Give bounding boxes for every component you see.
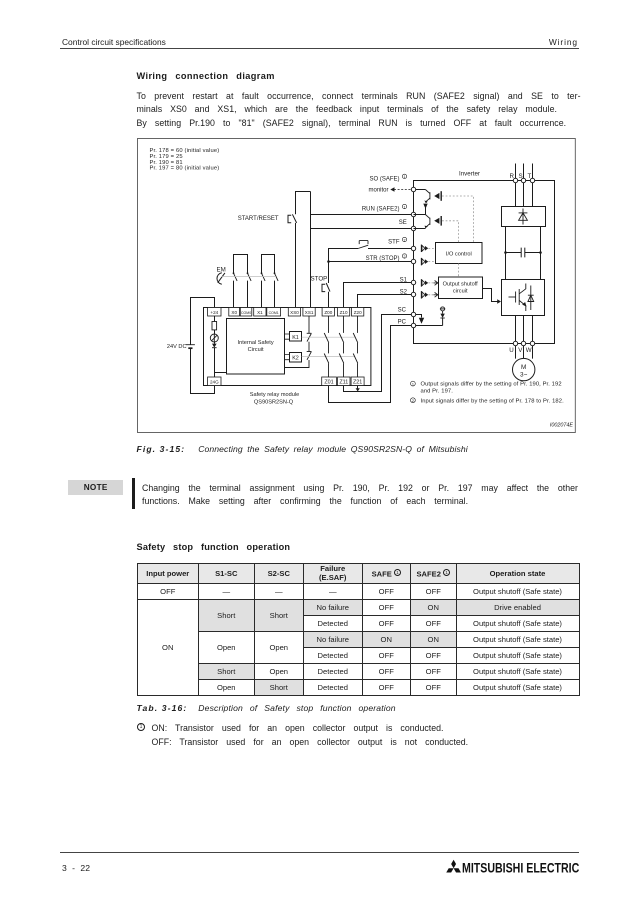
rectifier block — [502, 207, 546, 227]
svg-text:Z00: Z00 — [324, 310, 332, 315]
contact X0 — [233, 272, 238, 281]
junction DC bus right — [539, 251, 542, 254]
motor M — [513, 358, 535, 380]
terminal U — [513, 341, 517, 345]
wire U output — [515, 316, 517, 359]
figure frame — [138, 139, 576, 433]
optocoupler SE phototransistor — [414, 215, 430, 229]
terminal S — [521, 178, 525, 182]
FIGURE (schematic SVG placeholder) — [137, 138, 576, 439]
section title — [137, 71, 275, 81]
wire V output — [523, 316, 525, 359]
footnote mark 1 on SO — [402, 174, 406, 179]
safety relay module outline — [204, 308, 371, 386]
svg-text:SE: SE — [399, 220, 407, 226]
terminal S1 — [411, 280, 415, 284]
dashed STF to I/O control — [428, 248, 435, 250]
contact X1 — [261, 272, 266, 281]
relay contact actuator lines — [302, 337, 355, 356]
output shutoff circuit block — [439, 277, 483, 299]
optocoupler SO LED — [434, 191, 441, 201]
junction DC bus left — [504, 251, 507, 254]
EM mushroom button — [217, 273, 225, 285]
svg-text:Internal Safety: Internal Safety — [238, 340, 274, 346]
wire XS1 riser — [310, 192, 312, 308]
svg-text:Z11: Z11 — [339, 380, 348, 386]
svg-text:PC: PC — [398, 319, 407, 325]
svg-text:X0: X0 — [231, 310, 237, 315]
module terminal labels top — [210, 310, 362, 315]
svg-text:MITSUBISHI ELECTRIC: MITSUBISHI ELECTRIC — [462, 860, 579, 876]
svg-text:SO (SAFE): SO (SAFE) — [369, 176, 399, 182]
wire RUN(SAFE2) — [311, 214, 412, 216]
relay coil K1 — [284, 332, 301, 342]
terminal RUN — [411, 212, 415, 216]
I/O control block — [436, 243, 483, 264]
wire X1-COM1 loop — [262, 255, 275, 308]
svg-text:W: W — [526, 347, 532, 354]
svg-text:STF: STF — [388, 239, 400, 245]
svg-text:Pr. 197 = 80 (initial value): Pr. 197 = 80 (initial value) — [150, 166, 220, 172]
wire STF to terminal — [368, 248, 411, 250]
wire battery loop — [191, 298, 215, 394]
NOTE block — [68, 480, 123, 495]
wire SC return — [344, 315, 412, 392]
svg-text:Output signals differ by the s: Output signals differ by the setting of … — [421, 382, 562, 388]
IGBT symbol — [509, 284, 534, 312]
svg-text:3~: 3~ — [520, 372, 528, 379]
wire DC bus left — [505, 227, 507, 280]
internal safety circuit block — [227, 319, 285, 375]
terminal PC — [411, 323, 415, 327]
wire PC return — [329, 326, 412, 403]
svg-text:XS0: XS0 — [290, 310, 299, 315]
terminal STR — [411, 259, 415, 263]
wire SE — [311, 228, 412, 230]
svg-text:Inverter: Inverter — [459, 171, 480, 178]
svg-text:1: 1 — [404, 205, 406, 209]
figure footnote 2 — [411, 398, 565, 404]
optocoupler SE LED — [434, 216, 441, 226]
optocoupler SO phototransistor — [416, 190, 430, 215]
LED indicator — [210, 330, 218, 342]
junction STR tap — [327, 260, 330, 263]
svg-text:RUN (SAFE2): RUN (SAFE2) — [362, 206, 400, 212]
svg-text:XS1: XS1 — [305, 310, 314, 315]
relay coil K2 — [284, 353, 301, 363]
wire XS0 riser — [296, 192, 311, 308]
wire S supply stub — [523, 164, 525, 207]
svg-text:Output shutoff: Output shutoff — [443, 282, 478, 288]
monitor dashed arrow — [390, 187, 411, 192]
dashed SE LED to I/O control — [442, 221, 459, 243]
internal diode to PC — [440, 314, 444, 326]
wire T supply stub — [532, 164, 534, 207]
svg-text:Input signals differ by the se: Input signals differ by the setting of P… — [421, 398, 565, 404]
wire Z21 drop — [357, 386, 359, 389]
svg-text:M: M — [521, 364, 526, 371]
svg-text:Circuit: Circuit — [248, 347, 264, 353]
footnote mark 2 on STR — [402, 254, 406, 259]
svg-text:STOP: STOP — [311, 275, 328, 282]
relay contacts Z10 chain — [339, 316, 344, 377]
module terminal boxes top — [208, 308, 364, 317]
terminal R — [513, 178, 517, 182]
inverter enclosure — [414, 181, 555, 344]
contact COM0 — [247, 272, 252, 281]
parameter note text — [150, 148, 220, 172]
footnote mark 2 on STF — [402, 237, 406, 242]
inverter IGBT block — [502, 280, 545, 316]
svg-text:I002074E: I002074E — [550, 423, 573, 429]
switch STF — [358, 241, 368, 249]
footnote mark 1 on RUN — [402, 204, 406, 209]
svg-text:V: V — [518, 347, 523, 354]
diode on +24 rail — [212, 342, 227, 377]
input LED STR — [421, 258, 428, 265]
svg-text:24V DC: 24V DC — [167, 344, 187, 350]
terminal W — [530, 341, 534, 345]
terminal name labels — [362, 176, 408, 325]
svg-text:K1: K1 — [292, 335, 299, 341]
svg-text:COM0: COM0 — [241, 311, 251, 315]
svg-text:1: 1 — [412, 383, 414, 387]
wire PC to diode branch — [416, 325, 443, 327]
terminal SO — [411, 187, 415, 191]
input LED S2 — [421, 291, 437, 298]
paragraph — [137, 90, 582, 130]
svg-text:K2: K2 — [292, 356, 299, 362]
input LED S1 — [421, 279, 437, 286]
resistor on +24 rail — [212, 316, 217, 330]
terminal STF — [411, 246, 415, 250]
svg-text:Z20: Z20 — [354, 310, 362, 315]
svg-text:2: 2 — [404, 255, 406, 259]
rectifier diode symbol — [519, 209, 528, 225]
wire Z10 riser to S1 — [344, 283, 412, 308]
wire Z20 riser to S2 — [358, 295, 412, 308]
wire R supply stub — [515, 164, 517, 207]
module terminal labels bottom — [210, 380, 362, 386]
svg-text:2: 2 — [412, 399, 414, 403]
switch STOP — [322, 283, 330, 292]
module caption — [250, 392, 299, 405]
figure caption — [137, 444, 468, 454]
wire shutoff to IGBT with arrow — [483, 289, 502, 304]
svg-text:X1: X1 — [257, 310, 263, 315]
svg-text:circuit: circuit — [453, 289, 468, 295]
svg-text:Safety relay module: Safety relay module — [250, 392, 299, 398]
dashed SO LED to I/O control — [442, 196, 474, 243]
dashed I/O control to shutoff — [458, 264, 460, 278]
input LED STF — [421, 245, 428, 252]
svg-text:1: 1 — [404, 175, 406, 179]
svg-text:COM1: COM1 — [269, 311, 279, 315]
wire capacitor link — [506, 252, 541, 254]
wire SC-PC internal link with arrow — [416, 315, 425, 324]
wire DC bus right — [540, 227, 542, 280]
contact COM1 — [274, 272, 279, 281]
figure footnote 1 — [411, 381, 562, 395]
wire Z00 riser to STF — [329, 249, 359, 308]
U V W labels — [509, 347, 532, 354]
switch START/RESET — [288, 214, 297, 223]
svg-text:Z21: Z21 — [353, 380, 362, 386]
junction Z21 arrow — [356, 388, 360, 391]
terminal SE — [411, 226, 415, 230]
relay contacts Z00 chain — [324, 316, 329, 377]
terminal T — [530, 178, 534, 182]
svg-text:SC: SC — [398, 307, 407, 313]
footnote — [137, 721, 468, 750]
svg-text:monitor: monitor — [368, 188, 388, 194]
svg-text:and Pr. 197.: and Pr. 197. — [421, 389, 454, 395]
footer — [60, 852, 579, 853]
terminal S2 — [411, 292, 415, 296]
svg-text:Z10: Z10 — [340, 310, 348, 315]
svg-text:QS90SR2SN-Q: QS90SR2SN-Q — [254, 400, 294, 406]
svg-text:I/O control: I/O control — [446, 251, 472, 257]
battery 24V DC — [186, 345, 195, 349]
wire XS1 feedback chain — [284, 316, 311, 368]
dashed STR to I/O control — [428, 261, 435, 263]
svg-text:+24: +24 — [210, 310, 218, 315]
terminal SC — [411, 312, 415, 316]
capacitor plates — [521, 248, 525, 258]
wire W output — [532, 316, 534, 359]
table caption — [137, 703, 396, 713]
svg-text:24G: 24G — [210, 380, 219, 385]
terminal V — [521, 341, 525, 345]
svg-text:2: 2 — [404, 238, 406, 242]
EM actuator link — [221, 276, 276, 278]
module terminal boxes bottom — [208, 377, 365, 386]
internal 24V source symbol — [440, 307, 445, 314]
svg-text:Z01: Z01 — [324, 380, 333, 386]
running header — [62, 37, 166, 47]
R S T phase labels — [510, 173, 532, 180]
relay contacts Z20 chain — [353, 316, 358, 377]
svg-text:START/RESET: START/RESET — [238, 216, 279, 222]
svg-text:U: U — [509, 347, 513, 354]
wire X0-COM0 loop — [234, 255, 248, 308]
wire STR(STOP) — [329, 261, 412, 263]
table heading — [137, 542, 291, 552]
operation table — [137, 563, 580, 696]
